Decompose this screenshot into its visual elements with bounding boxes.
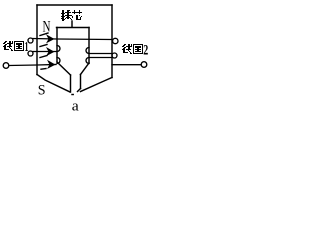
coil2 loop 2: [112, 53, 117, 58]
core inner window left edge: [56, 28, 58, 63]
svg-text:2: 2: [143, 43, 148, 59]
winding back-stub 4: [41, 68, 46, 71]
glyph 芯 (core): [72, 10, 82, 20]
core inner left diagonal: [57, 62, 71, 75]
current arrow on turn 3: [47, 60, 56, 69]
right pole tip hook: [78, 89, 81, 92]
svg-text:S: S: [38, 83, 46, 99]
current arrow on turn 1: [46, 34, 55, 43]
core inner window top edge: [57, 27, 90, 29]
glyph 铁 (iron): [61, 10, 72, 21]
stray dot at left pole tip: [72, 94, 73, 96]
glyph 圈 (coil) of coil2: [133, 44, 143, 54]
coil2 inner arc 1: [86, 48, 89, 54]
coil1 inner arc 1: [57, 46, 60, 52]
coil1 inner arc 2: [57, 58, 60, 64]
current arrow on turn 2: [46, 47, 55, 56]
core outer right edge: [111, 5, 113, 78]
svg-text:1: 1: [25, 39, 29, 54]
right lead wire: [112, 64, 141, 66]
core outer left edge: [36, 5, 38, 75]
wire turn 1 across window (coil1 to coil2): [33, 39, 111, 40]
svg-text:N: N: [43, 19, 51, 36]
left terminal circle: [3, 63, 9, 69]
winding back-stub 1: [40, 33, 48, 36]
core inner right diagonal: [81, 63, 90, 75]
core inner right pole vertical: [80, 75, 82, 89]
right terminal circle: [141, 62, 147, 68]
coil2 turn 3 / lead: [89, 57, 112, 59]
wire turn 3 / lead from left terminal: [9, 65, 56, 66]
core inner left pole vertical: [70, 75, 72, 92]
glyph 线 (wire) of coil1: [3, 41, 13, 51]
wire turn 2 coil1: [33, 51, 56, 53]
core outer right diagonal to pole tip: [81, 78, 113, 92]
leader line of iron-core label: [71, 21, 73, 27]
winding back-stub 3: [40, 56, 47, 58]
svg-text:a: a: [72, 99, 79, 113]
coil1 loop 1: [28, 38, 33, 43]
coil2 turn 2: [89, 53, 111, 55]
glyph 线 (wire) of coil2: [122, 44, 132, 54]
core outer left diagonal to pole tip: [37, 75, 70, 93]
core inner window right edge: [88, 28, 90, 64]
glyph 圈 (coil) of coil1: [14, 41, 24, 51]
coil2 inner arc 2: [86, 58, 89, 64]
coil1 loop 2: [28, 51, 33, 56]
coil2 loop 1: [113, 38, 118, 43]
winding back-stub 2: [40, 45, 47, 47]
core outer top edge: [37, 4, 112, 6]
